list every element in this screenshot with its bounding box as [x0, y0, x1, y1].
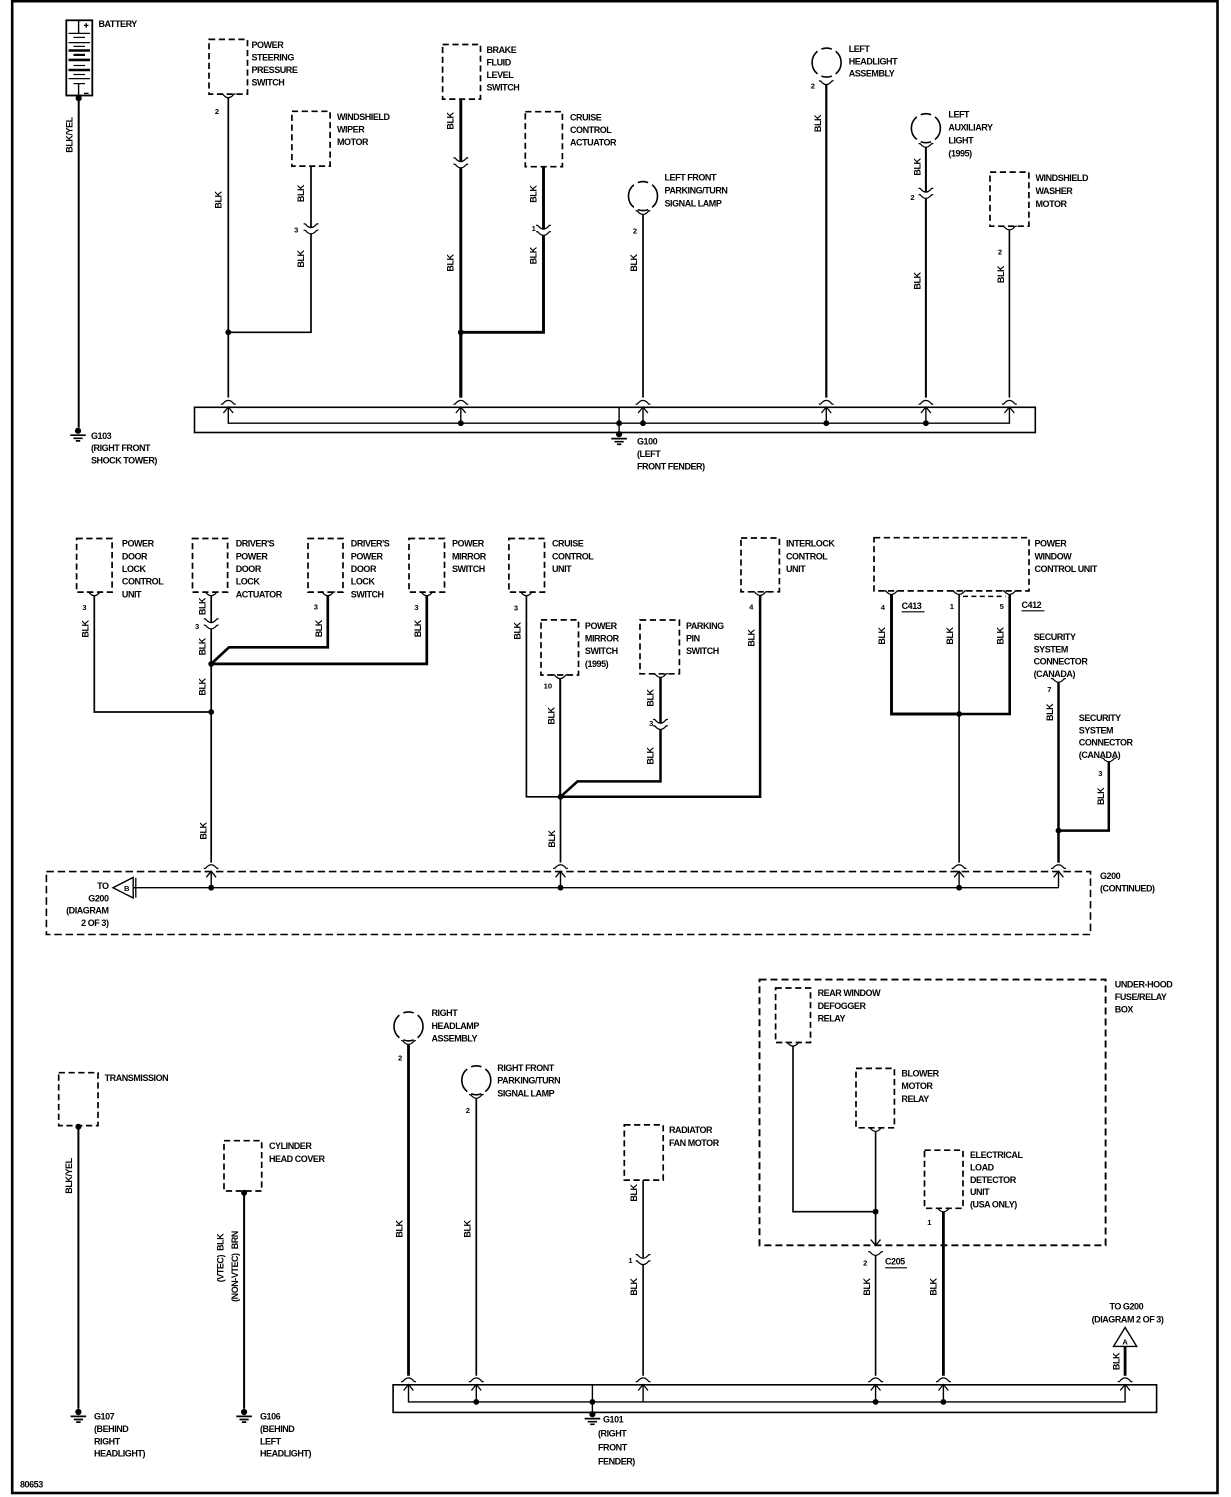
svg-text:3: 3	[294, 225, 298, 234]
junction F	[956, 711, 962, 717]
svg-text:(LEFT: (LEFT	[637, 449, 661, 459]
junction C	[208, 661, 214, 667]
svg-text:4: 4	[749, 603, 754, 612]
cruise control unit	[509, 539, 545, 593]
svg-text:WINDSHIELD: WINDSHIELD	[337, 112, 390, 122]
svg-text:BLK: BLK	[296, 249, 306, 267]
wire cruise actuator lower, BLK	[461, 235, 544, 332]
node TO G200 triangle B	[113, 877, 133, 898]
svg-text:2 OF 3): 2 OF 3)	[81, 918, 109, 928]
wire left aux lower, BLK	[925, 198, 927, 397]
svg-text:BLK: BLK	[296, 184, 306, 202]
svg-text:2: 2	[863, 1259, 867, 1268]
bus inner end segment	[1058, 871, 1060, 887]
svg-text:FRONT FENDER): FRONT FENDER)	[637, 462, 705, 472]
svg-text:A: A	[1122, 1337, 1128, 1346]
svg-text:PARKING/TURN: PARKING/TURN	[665, 186, 728, 196]
svg-text:G200: G200	[1100, 871, 1121, 881]
bus junction	[616, 420, 622, 426]
bus drop segment	[642, 1385, 644, 1402]
svg-text:BLK: BLK	[199, 821, 209, 839]
svg-text:BLK: BLK	[198, 637, 208, 655]
svg-text:UNIT: UNIT	[122, 589, 142, 599]
right front parking/turn signal lamp	[462, 1066, 491, 1095]
svg-text:10: 10	[544, 681, 552, 690]
wire wiper motor lower, BLK	[228, 234, 311, 332]
wire battery to G103, BLK/YEL	[76, 95, 82, 101]
svg-text:2: 2	[398, 1054, 402, 1063]
electrical load detector unit	[925, 1150, 964, 1208]
svg-text:CONTROL: CONTROL	[122, 577, 164, 587]
svg-text:BLK: BLK	[198, 677, 208, 695]
svg-text:BLK: BLK	[996, 626, 1006, 644]
ground G101	[591, 1402, 593, 1413]
svg-text:2: 2	[811, 81, 815, 90]
wire radiator fan upper, BLK	[642, 1180, 644, 1258]
wire interlock, BLK	[561, 595, 761, 796]
svg-text:ASSEMBLY: ASSEMBLY	[432, 1034, 478, 1044]
svg-text:SWITCH: SWITCH	[487, 83, 520, 93]
svg-text:LEFT: LEFT	[260, 1436, 282, 1446]
wire blower relay	[875, 1131, 877, 1244]
bus drop segment	[875, 1385, 877, 1402]
svg-text:UNDER-HOOD: UNDER-HOOD	[1115, 980, 1173, 990]
svg-text:G200: G200	[88, 893, 109, 903]
svg-text:3: 3	[414, 603, 418, 612]
bus drop segment	[475, 1385, 477, 1402]
svg-text:SHOCK TOWER): SHOCK TOWER)	[91, 456, 157, 466]
bus inner wire	[409, 1385, 1126, 1402]
svg-text:CONTROL: CONTROL	[570, 125, 612, 135]
svg-text:SWITCH: SWITCH	[585, 646, 618, 656]
svg-text:5: 5	[1000, 602, 1005, 611]
svg-text:WASHER: WASHER	[1036, 186, 1074, 196]
bus junction	[823, 420, 829, 426]
svg-text:(VTEC) BLK: (VTEC) BLK	[216, 1233, 226, 1282]
power mirror switch	[409, 539, 445, 593]
bus drop segment	[591, 1385, 593, 1402]
svg-text:RIGHT: RIGHT	[432, 1008, 459, 1018]
svg-text:LOCK: LOCK	[351, 577, 376, 587]
bus drop segment	[825, 407, 827, 423]
wire PW pin1, BLK	[958, 595, 960, 863]
svg-text:MIRROR: MIRROR	[452, 551, 487, 561]
parking pin switch	[640, 620, 679, 674]
svg-text:PRESSURE: PRESSURE	[252, 65, 298, 75]
svg-text:3: 3	[314, 603, 318, 612]
wire power steering to junction, BLK	[227, 98, 229, 398]
svg-text:SWITCH: SWITCH	[351, 589, 384, 599]
bus connector arrow	[401, 1378, 416, 1391]
wire radiator fan lower, BLK	[642, 1265, 644, 1376]
wire security 1, BLK	[1057, 682, 1060, 862]
svg-text:HEADLIGHT): HEADLIGHT)	[94, 1449, 145, 1459]
bus junction	[873, 1399, 879, 1405]
svg-text:SYSTEM: SYSTEM	[1079, 725, 1113, 735]
bus connector arrow	[819, 400, 834, 413]
svg-text:BLK: BLK	[1112, 1352, 1122, 1370]
svg-text:C205: C205	[885, 1257, 905, 1267]
svg-text:4: 4	[881, 603, 886, 612]
svg-text:2: 2	[998, 248, 1002, 257]
svg-text:BRAKE: BRAKE	[487, 45, 517, 55]
bus connector arrow	[636, 400, 651, 413]
svg-text:PIN: PIN	[686, 634, 700, 644]
interlock control unit	[741, 538, 779, 592]
wire security 2, BLK	[1059, 762, 1109, 831]
bus connector arrow	[936, 1378, 951, 1391]
svg-text:2: 2	[633, 227, 637, 236]
svg-text:SWITCH: SWITCH	[252, 78, 285, 88]
svg-text:PARKING: PARKING	[686, 621, 724, 631]
svg-text:BLK: BLK	[945, 626, 955, 644]
svg-text:CONNECTOR: CONNECTOR	[1079, 738, 1134, 748]
svg-text:LOAD: LOAD	[970, 1163, 995, 1173]
svg-text:FLUID: FLUID	[487, 58, 512, 68]
svg-text:FUSE/RELAY: FUSE/RELAY	[1115, 992, 1167, 1002]
svg-text:DRIVER'S: DRIVER'S	[236, 539, 275, 549]
brake fluid level switch	[443, 45, 481, 100]
ground bus G100 box	[195, 407, 1036, 432]
svg-text:HEAD COVER: HEAD COVER	[269, 1154, 325, 1164]
svg-text:RIGHT: RIGHT	[94, 1436, 121, 1446]
svg-text:LEFT: LEFT	[948, 110, 970, 120]
svg-text:BLK: BLK	[747, 628, 757, 646]
svg-text:RELAY: RELAY	[818, 1014, 846, 1024]
wire power mirror switch, BLK	[211, 596, 427, 664]
bus connector arrow	[453, 400, 468, 413]
bus drop segment	[942, 1385, 944, 1402]
wire cruise control unit, BLK	[526, 596, 560, 797]
inline connector pin 3	[304, 224, 319, 234]
bus inner wire	[134, 887, 1059, 889]
svg-text:LEVEL: LEVEL	[487, 70, 515, 80]
svg-text:RIGHT FRONT: RIGHT FRONT	[497, 1063, 554, 1073]
wire door lock switch, BLK	[211, 596, 328, 664]
wire parking pin lower, BLK	[561, 729, 661, 796]
inline connector pin 2	[919, 188, 934, 198]
svg-text:BLK: BLK	[547, 829, 557, 847]
bus drop segment	[618, 407, 620, 423]
svg-text:C413: C413	[902, 601, 922, 611]
svg-text:(BEHIND: (BEHIND	[94, 1424, 129, 1434]
svg-text:(BEHIND: (BEHIND	[260, 1424, 295, 1434]
cylinder head cover	[224, 1141, 262, 1191]
svg-text:ELECTRICAL: ELECTRICAL	[970, 1150, 1023, 1160]
svg-text:BLK: BLK	[446, 253, 456, 271]
left front parking/turn signal lamp	[628, 182, 657, 211]
svg-text:BLK: BLK	[463, 1219, 473, 1237]
svg-text:LEFT: LEFT	[849, 44, 871, 54]
svg-text:BLK: BLK	[446, 111, 456, 129]
inline connector pin 3	[653, 719, 668, 729]
svg-text:ACTUATOR: ACTUATOR	[236, 589, 283, 599]
svg-text:LOCK: LOCK	[236, 577, 261, 587]
svg-text:BLK: BLK	[314, 619, 324, 637]
svg-text:G106: G106	[260, 1412, 281, 1422]
ground G103	[70, 428, 86, 441]
svg-text:HEADLIGHT: HEADLIGHT	[849, 56, 898, 66]
svg-text:STEERING: STEERING	[252, 53, 295, 63]
wire actuator lower, BLK	[210, 629, 212, 664]
svg-text:SIGNAL LAMP: SIGNAL LAMP	[497, 1088, 554, 1098]
power mirror switch (1995)	[541, 620, 579, 675]
inline connector pin 3	[204, 619, 219, 629]
svg-text:(DIAGRAM: (DIAGRAM	[66, 906, 108, 916]
terminal dot	[75, 1124, 81, 1130]
junction H	[873, 1209, 879, 1215]
left auxiliary light	[911, 114, 940, 143]
bus connector arrow	[868, 1378, 883, 1391]
svg-text:ACTUATOR: ACTUATOR	[570, 138, 617, 148]
bus drop segment	[460, 407, 462, 423]
bus inner segment	[210, 871, 212, 887]
svg-text:BLK: BLK	[646, 746, 656, 764]
power window control unit	[874, 538, 1029, 591]
svg-text:FENDER): FENDER)	[598, 1456, 635, 1466]
svg-text:(RIGHT FRONT: (RIGHT FRONT	[91, 443, 151, 453]
svg-text:1: 1	[532, 224, 537, 233]
wire PW pin4, BLK	[892, 595, 960, 715]
svg-text:CONTROL UNIT: CONTROL UNIT	[1035, 564, 1098, 574]
wire junction D to G200 bus, BLK	[210, 712, 212, 863]
svg-text:RELAY: RELAY	[901, 1094, 929, 1104]
svg-text:SYSTEM: SYSTEM	[1034, 644, 1068, 654]
svg-text:TRANSMISSION: TRANSMISSION	[105, 1073, 169, 1083]
svg-text:SECURITY: SECURITY	[1079, 713, 1121, 723]
svg-text:BLK: BLK	[929, 1277, 939, 1295]
svg-text:80653: 80653	[20, 1480, 43, 1490]
svg-text:MOTOR: MOTOR	[901, 1081, 933, 1091]
wire ELD to bus, BLK	[942, 1212, 945, 1376]
svg-text:DOOR: DOOR	[236, 564, 262, 574]
svg-text:POWER: POWER	[452, 539, 485, 549]
bus connector arrow	[636, 1378, 651, 1391]
blower motor relay	[856, 1068, 894, 1127]
svg-text:LOCK: LOCK	[122, 564, 147, 574]
svg-text:BLK: BLK	[996, 265, 1006, 283]
svg-text:BLK: BLK	[629, 1277, 639, 1295]
wire right front parking lamp, BLK	[475, 1098, 477, 1376]
svg-text:REAR WINDOW: REAR WINDOW	[818, 988, 881, 998]
svg-text:CRUISE: CRUISE	[552, 539, 584, 549]
connector C412 dashed link	[963, 595, 1006, 597]
svg-text:WIPER: WIPER	[337, 125, 365, 135]
cruise control actuator	[525, 112, 562, 167]
svg-text:FRONT: FRONT	[598, 1443, 628, 1453]
svg-text:BLK: BLK	[862, 1277, 872, 1295]
connector C205 arrow at fuse box edge, pin 2	[871, 1240, 881, 1246]
wire cruise actuator upper, BLK	[542, 167, 545, 229]
bus drop segment	[925, 407, 927, 423]
ground G100	[618, 423, 620, 433]
bus connector arrow	[919, 400, 934, 413]
ground G106	[236, 1409, 252, 1422]
svg-text:DRIVER'S: DRIVER'S	[351, 539, 390, 549]
power steering pressure switch	[209, 39, 248, 94]
bus inner wire	[228, 407, 1009, 423]
junction D	[208, 709, 214, 715]
svg-text:TO: TO	[97, 881, 109, 891]
wire brake fluid lower, BLK	[459, 168, 462, 398]
svg-text:CONNECTOR: CONNECTOR	[1034, 657, 1089, 667]
bus inner segment	[958, 871, 960, 887]
svg-text:BLK: BLK	[1096, 787, 1106, 805]
svg-text:MOTOR: MOTOR	[1036, 199, 1068, 209]
svg-text:POWER: POWER	[236, 551, 269, 561]
svg-text:MOTOR: MOTOR	[337, 137, 369, 147]
svg-text:BLK: BLK	[913, 271, 923, 289]
svg-text:1: 1	[950, 602, 955, 611]
windshield wiper motor	[292, 111, 330, 166]
svg-text:CRUISE: CRUISE	[570, 113, 602, 123]
svg-text:1: 1	[628, 1256, 633, 1265]
wire LF parking lamp, BLK	[642, 215, 644, 398]
junction B	[458, 329, 464, 335]
svg-text:BLK: BLK	[1045, 703, 1055, 721]
under-hood fuse/relay box	[760, 980, 1106, 1246]
inline connector	[453, 158, 468, 168]
svg-text:BLK/YEL: BLK/YEL	[65, 116, 75, 152]
svg-text:(USA ONLY): (USA ONLY)	[970, 1199, 1017, 1209]
bus connector arrow	[1118, 1378, 1133, 1391]
wire defogger relay	[793, 1046, 876, 1212]
wire junction B to bus	[459, 332, 462, 397]
svg-text:1: 1	[927, 1218, 932, 1227]
bus junction	[941, 1399, 947, 1405]
svg-text:POWER: POWER	[252, 40, 285, 50]
svg-text:BATTERY: BATTERY	[99, 19, 138, 29]
svg-text:BLK: BLK	[214, 190, 224, 208]
bus connector arrow	[221, 400, 236, 413]
svg-text:BLK: BLK	[413, 619, 423, 637]
svg-text:BLK: BLK	[913, 157, 923, 175]
svg-text:BLK: BLK	[513, 621, 523, 639]
wire left aux upper, BLK	[925, 147, 927, 192]
bus junction	[640, 420, 646, 426]
svg-text:2: 2	[466, 1106, 470, 1115]
wire triangle A to bus, BLK	[1124, 1346, 1127, 1375]
svg-text:HEADLIGHT): HEADLIGHT)	[260, 1449, 311, 1459]
svg-text:BLK: BLK	[629, 1183, 639, 1201]
svg-text:(1995): (1995)	[585, 659, 609, 669]
wire C205 to bus, BLK	[875, 1255, 877, 1375]
wire junction E to G200 bus, BLK	[560, 797, 562, 863]
svg-text:BLK: BLK	[198, 597, 208, 615]
svg-text:WINDSHIELD: WINDSHIELD	[1036, 173, 1089, 183]
svg-text:AUXILIARY: AUXILIARY	[948, 123, 993, 133]
svg-text:BLK: BLK	[877, 626, 887, 644]
bus inner segment	[560, 871, 562, 887]
wire left headlight, BLK	[825, 85, 827, 398]
svg-text:BLK: BLK	[81, 619, 91, 637]
svg-text:BLK: BLK	[646, 688, 656, 706]
ground G107	[71, 1409, 87, 1422]
svg-text:BLK/YEL: BLK/YEL	[64, 1157, 74, 1193]
svg-text:DEFOGGER: DEFOGGER	[818, 1001, 867, 1011]
junction A	[225, 329, 231, 335]
svg-text:UNIT: UNIT	[970, 1187, 990, 1197]
svg-text:C412: C412	[1022, 600, 1042, 610]
svg-text:3: 3	[649, 719, 653, 728]
svg-text:LEFT FRONT: LEFT FRONT	[665, 173, 717, 183]
G200 bus (dashed)	[46, 872, 1090, 935]
svg-text:POWER: POWER	[1035, 539, 1068, 549]
svg-text:PARKING/TURN: PARKING/TURN	[497, 1076, 560, 1086]
svg-text:DETECTOR: DETECTOR	[970, 1175, 1017, 1185]
wire wiper motor upper, BLK	[310, 166, 312, 227]
svg-text:3: 3	[195, 622, 199, 631]
svg-text:POWER: POWER	[351, 551, 384, 561]
wire PDL control unit, BLK	[94, 596, 211, 712]
svg-text:3: 3	[514, 604, 518, 613]
svg-text:BLK: BLK	[395, 1219, 405, 1237]
wire right headlamp, BLK	[407, 1044, 410, 1375]
svg-text:(1995): (1995)	[948, 149, 972, 159]
svg-text:BLK: BLK	[528, 185, 538, 203]
svg-text:BLK: BLK	[629, 253, 639, 271]
windshield washer motor	[990, 172, 1029, 226]
wire brake fluid upper, BLK	[459, 99, 462, 161]
svg-text:RADIATOR: RADIATOR	[669, 1125, 713, 1135]
wire washer motor, BLK	[1008, 230, 1010, 398]
svg-text:B: B	[124, 884, 130, 893]
svg-text:POWER: POWER	[585, 621, 618, 631]
svg-text:FAN MOTOR: FAN MOTOR	[669, 1138, 720, 1148]
rear window defogger relay	[776, 988, 811, 1043]
svg-text:2: 2	[910, 193, 914, 202]
bus junction	[590, 1399, 596, 1405]
junction G	[1056, 828, 1062, 834]
bus junction	[473, 1399, 479, 1405]
bus junction	[923, 420, 929, 426]
wire transmission to G107, BLK/YEL	[77, 1127, 79, 1409]
svg-text:SIGNAL LAMP: SIGNAL LAMP	[665, 199, 722, 209]
junction E	[558, 794, 564, 800]
bus drop segment	[642, 407, 644, 423]
battery	[66, 20, 92, 95]
svg-text:(CONTINUED): (CONTINUED)	[1100, 883, 1155, 893]
svg-text:3: 3	[1098, 769, 1102, 778]
wire PW pin5, BLK	[959, 595, 1010, 715]
svg-text:ASSEMBLY: ASSEMBLY	[849, 69, 895, 79]
inline connector pin 1	[636, 1255, 651, 1265]
svg-text:BLK: BLK	[528, 246, 538, 264]
svg-text:BOX: BOX	[1115, 1004, 1134, 1014]
right headlamp assembly	[394, 1012, 423, 1041]
svg-text:(RIGHT: (RIGHT	[598, 1429, 627, 1439]
svg-text:G107: G107	[94, 1412, 115, 1422]
svg-text:CYLINDER: CYLINDER	[269, 1141, 312, 1151]
svg-text:LIGHT: LIGHT	[948, 136, 974, 146]
svg-text:(NON-VTEC) BRN: (NON-VTEC) BRN	[230, 1231, 240, 1302]
svg-text:DOOR: DOOR	[351, 564, 377, 574]
svg-text:UNIT: UNIT	[552, 564, 572, 574]
transmission	[59, 1073, 98, 1126]
driver's power door lock actuator	[193, 539, 228, 593]
inline connector pin 1	[536, 225, 551, 235]
svg-text:MIRROR: MIRROR	[585, 634, 620, 644]
svg-text:G101: G101	[603, 1415, 624, 1425]
svg-text:POWER: POWER	[122, 539, 155, 549]
svg-text:(CANADA): (CANADA)	[1034, 669, 1076, 679]
radiator fan motor	[624, 1125, 663, 1180]
svg-text:WINDOW: WINDOW	[1035, 551, 1073, 561]
wire junction C to D, BLK	[210, 664, 212, 712]
svg-text:SECURITY: SECURITY	[1034, 632, 1076, 642]
ground bus G101 box	[393, 1385, 1157, 1413]
wire cylinder head to G106, BLK/BRN	[243, 1193, 245, 1409]
